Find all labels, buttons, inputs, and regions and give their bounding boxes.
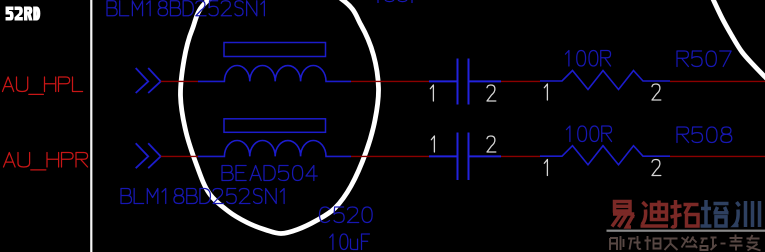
wire red row1 b bbox=[351, 80, 430, 82]
vertical border line bbox=[90, 0, 92, 252]
highlight ellipse (freehand white oval) bbox=[180, 0, 378, 234]
watermark tagline glyphs bbox=[610, 235, 761, 251]
resistor R508 row2 bbox=[540, 146, 670, 165]
watermark char pei (blue) bbox=[701, 200, 729, 226]
capacitor C519 pin 1 label bbox=[430, 85, 433, 101]
capacitor C520 pin 1 label bbox=[431, 136, 434, 152]
capacitor value label 10uF bbox=[330, 234, 370, 250]
wire red row2 a bbox=[161, 155, 199, 157]
resistor R507 refdes label bbox=[677, 51, 731, 67]
port chevron row1 bbox=[136, 68, 161, 93]
ferrite bead BEAD503 inductor coil row1 bbox=[198, 66, 351, 82]
capacitor C519 pin 2 label bbox=[487, 85, 496, 101]
resistor R508 pin 1 label bbox=[544, 160, 547, 176]
wire red row2 c bbox=[501, 155, 540, 157]
bead refdes label BEAD504 bbox=[222, 166, 317, 181]
ferrite bead BEAD503 body box row1 bbox=[224, 43, 326, 57]
resistor R508 refdes label bbox=[677, 127, 732, 143]
watermark char di (red) bbox=[641, 201, 669, 227]
bead part number label row2 BLM18BD252SN1 bbox=[121, 189, 284, 204]
watermark underline bbox=[607, 230, 765, 232]
resistor R507 pin 2 label bbox=[652, 84, 661, 100]
net name AU_HPR bbox=[4, 153, 88, 170]
cut-off text fragment at top bbox=[378, 0, 412, 3]
wire red row1 c bbox=[501, 80, 540, 82]
wire red row2 d bbox=[670, 155, 765, 157]
capacitor C519 row1 bbox=[429, 59, 501, 105]
watermark char tuo (red) bbox=[671, 200, 699, 227]
wire red row1 a bbox=[161, 80, 199, 82]
port chevron row2 bbox=[136, 143, 161, 168]
bead part number label top BLM18BD252SN1 bbox=[107, 1, 264, 16]
ferrite bead BEAD504 inductor coil row2 bbox=[198, 141, 351, 157]
wire red row2 b bbox=[351, 155, 430, 157]
wire red row1 d bbox=[670, 80, 765, 82]
capacitor C520 row2 bbox=[429, 133, 501, 181]
52RD logo text bbox=[6, 7, 40, 20]
capacitor C520 pin 2 label bbox=[487, 136, 496, 152]
capacitor refdes label C520 bbox=[320, 207, 373, 223]
highlight arc top-right (white) bbox=[712, 0, 765, 79]
resistor R507 pin 1 label bbox=[544, 84, 547, 100]
resistor R508 pin 2 label bbox=[652, 160, 661, 176]
net name AU_HPL bbox=[3, 77, 83, 94]
resistor R507 value label 100R bbox=[565, 51, 610, 67]
watermark char xun (blue) bbox=[735, 201, 760, 227]
ferrite bead BEAD504 body box row2 bbox=[224, 119, 326, 133]
resistor R508 value label 100R bbox=[566, 126, 611, 142]
watermark char yi (red) bbox=[612, 202, 634, 228]
resistor R507 row1 bbox=[540, 71, 670, 90]
